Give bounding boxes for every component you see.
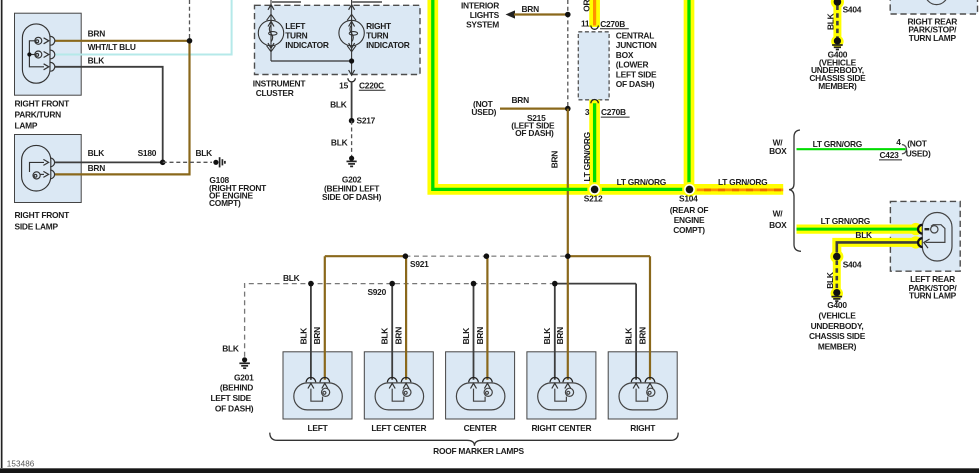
svg-text:C220C: C220C — [359, 80, 384, 90]
svg-text:LEFT CENTER: LEFT CENTER — [371, 423, 426, 433]
svg-text:S404: S404 — [843, 4, 862, 14]
wire BRN to interior lights system — [514, 13, 568, 15]
wire BRN (not used) branch — [500, 107, 568, 109]
svg-text:WHT/LT BLU: WHT/LT BLU — [88, 42, 136, 52]
svg-text:BLK: BLK — [222, 344, 239, 354]
svg-text:153486: 153486 — [7, 459, 35, 468]
svg-text:(VEHICLE: (VEHICLE — [818, 311, 856, 321]
ground G400 (top right) — [832, 37, 843, 49]
node S104 — [682, 182, 697, 197]
wire BLK riser RIGHT CENTER — [554, 284, 556, 380]
wire BRN bus dashed middle segment — [405, 255, 567, 257]
node BLK bus at RIGHT CENTER — [552, 281, 558, 287]
right turn indicator bulb — [339, 0, 364, 76]
left rear lamp bulb — [922, 213, 952, 262]
svg-text:BRN: BRN — [522, 4, 540, 14]
svg-text:LT GRN/ORG: LT GRN/ORG — [718, 177, 767, 187]
cut-off connector label above left indicator — [272, 1, 301, 3]
svg-text:RIGHT: RIGHT — [630, 423, 656, 433]
wire BRN S215 down to marker lamp bus — [567, 109, 569, 257]
svg-text:BLK: BLK — [855, 230, 872, 240]
park/turn lamp terminal cups — [50, 36, 54, 71]
svg-text:(NOT: (NOT — [907, 138, 928, 148]
wire core: lt grn/org main L path — [433, 0, 690, 189]
svg-text:COMPT): COMPT) — [673, 225, 705, 235]
wire BLK from side lamp to S180 — [55, 161, 163, 163]
svg-text:BRN: BRN — [550, 151, 560, 169]
svg-text:USED): USED) — [471, 107, 496, 117]
wire BLK from park/turn lamp down to S180 — [55, 67, 163, 163]
ground G108 — [213, 157, 225, 167]
svg-text:(REAR OF: (REAR OF — [670, 205, 709, 215]
dashed wire top to S215 — [567, 0, 569, 109]
svg-text:ORG: ORG — [581, 0, 591, 12]
node at interior lights tap — [565, 12, 571, 18]
highlighted circuit: yellow band main L path — [433, 0, 783, 189]
svg-text:RIGHT FRONT: RIGHT FRONT — [15, 210, 71, 220]
yellow halo G400 (top right) — [831, 35, 843, 47]
svg-text:W/: W/ — [773, 209, 784, 219]
svg-text:15: 15 — [339, 80, 348, 90]
cut-off connector label above right indicator — [352, 1, 382, 3]
svg-text:OF DASH): OF DASH) — [616, 79, 655, 89]
roof marker lamp bulb LEFT — [294, 383, 343, 410]
connector C220C pin 15 cup — [348, 78, 355, 82]
svg-text:S217: S217 — [357, 115, 376, 125]
svg-text:BLK: BLK — [380, 328, 390, 345]
wire BLK riser RIGHT — [635, 284, 637, 380]
svg-text:LEFT SIDE: LEFT SIDE — [616, 70, 657, 80]
svg-text:S180: S180 — [138, 148, 157, 158]
right rear park/stop/turn lamp box (cut off at top) — [890, 0, 977, 14]
node BRN junction — [187, 38, 193, 44]
dashed wire S404 to G400 (top) — [836, 6, 839, 38]
connector C270B pin 3 cup — [591, 99, 599, 103]
svg-text:UNDERBODY,: UNDERBODY, — [811, 321, 864, 331]
svg-text:OF DASH): OF DASH) — [515, 128, 554, 138]
brace splitting rear feed — [789, 130, 801, 251]
node S404 (left rear) — [833, 253, 841, 261]
yellow band: lt grn/org from CJB pin 3 to S212 — [589, 100, 600, 195]
wire core: vertical to S104 — [687, 0, 690, 189]
instrument cluster box — [255, 5, 421, 74]
arrow to interior lights system — [506, 10, 516, 18]
svg-text:SIDE OF DASH): SIDE OF DASH) — [322, 192, 382, 202]
svg-text:BRN: BRN — [555, 327, 565, 345]
yellow halo S404 (top right) — [831, 0, 844, 9]
central junction box — [578, 32, 609, 100]
svg-text:BLK: BLK — [88, 56, 105, 66]
wire core: blk return from left rear lamp — [837, 242, 918, 252]
svg-text:BRN: BRN — [88, 28, 106, 38]
roof marker lamp bulb LEFT CENTER — [375, 383, 424, 410]
svg-text:S921: S921 — [410, 259, 429, 269]
svg-text:INDICATOR: INDICATOR — [366, 40, 410, 50]
svg-text:BLK: BLK — [88, 148, 105, 158]
svg-text:S920: S920 — [367, 287, 386, 297]
node joining indicators — [349, 58, 354, 63]
roof marker lamp box RIGHT — [608, 352, 677, 419]
node S215 — [565, 106, 571, 112]
yellow band: branch to left rear lamp — [797, 224, 921, 233]
node BLK bus at CENTER — [471, 281, 477, 287]
node BLK bus at LEFT — [308, 281, 314, 287]
left rear park/stop/turn lamp box — [890, 201, 960, 271]
wire core: lt grn/org CJB pin 3 to S212 — [593, 103, 596, 191]
park/turn lamp bulb — [22, 24, 50, 83]
svg-text:BLK: BLK — [825, 13, 835, 30]
svg-text:CENTRAL: CENTRAL — [616, 30, 654, 40]
svg-text:3: 3 — [585, 107, 590, 117]
svg-text:BRN: BRN — [512, 95, 530, 105]
svg-text:INDICATOR: INDICATOR — [285, 40, 329, 50]
svg-text:BOX: BOX — [769, 220, 787, 230]
right front park/turn lamp box — [15, 13, 82, 95]
svg-text:4: 4 — [896, 137, 901, 147]
wire BLK riser LEFT — [310, 284, 312, 380]
brace roof marker lamps — [270, 433, 678, 446]
svg-text:BRN: BRN — [312, 327, 322, 345]
wire core: org into CJB pin 11 — [593, 0, 596, 26]
dashed wire S217 to G202 — [351, 121, 353, 157]
roof marker lamp bulb RIGHT — [619, 383, 668, 410]
svg-text:LT GRN/ORG: LT GRN/ORG — [617, 177, 666, 187]
node BRN bus at RIGHT CENTER (S215 feed) — [565, 253, 571, 259]
svg-text:LT GRN/ORG: LT GRN/ORG — [813, 139, 862, 149]
svg-text:LEFT SIDE: LEFT SIDE — [210, 393, 251, 403]
svg-text:BLK: BLK — [542, 328, 552, 345]
svg-text:C270B: C270B — [600, 19, 625, 29]
wire joining indicators inside cluster — [271, 60, 352, 62]
svg-text:CLUSTER: CLUSTER — [256, 88, 294, 98]
connector C270B pin 11 cup — [591, 26, 599, 30]
svg-text:(LOWER: (LOWER — [616, 60, 649, 70]
svg-text:(BEHIND: (BEHIND — [220, 382, 253, 392]
dashed stub above BRN node — [189, 0, 191, 41]
svg-text:BRN: BRN — [475, 327, 485, 345]
svg-text:LT GRN/ORG: LT GRN/ORG — [582, 132, 592, 181]
svg-text:BLK: BLK — [461, 328, 471, 345]
svg-text:RIGHT CENTER: RIGHT CENTER — [531, 423, 591, 433]
wire BLK riser CENTER — [473, 284, 475, 380]
svg-text:MEMBER): MEMBER) — [818, 81, 857, 91]
roof marker lamp box CENTER — [446, 352, 515, 419]
svg-text:BRN: BRN — [88, 163, 106, 173]
yellow band: orange feed into CJB pin 11 — [589, 0, 600, 27]
svg-text:TURN LAMP: TURN LAMP — [909, 33, 957, 43]
ground G400 (left rear) — [832, 289, 843, 301]
wire BLK bus right solid segment — [555, 283, 636, 285]
wire BRN riser RIGHT CENTER — [567, 256, 569, 380]
wire BRN riser RIGHT — [649, 256, 651, 380]
yellow halo G400 (left rear) — [831, 287, 843, 299]
wire lt grn/org to C423 (not used) — [797, 148, 906, 150]
svg-text:BLK: BLK — [825, 272, 835, 289]
svg-text:COMPT): COMPT) — [209, 198, 241, 208]
yellow halo S404 (left rear) — [830, 250, 843, 263]
svg-text:INSTRUMENT: INSTRUMENT — [253, 79, 307, 89]
svg-text:C270B: C270B — [601, 107, 626, 117]
node S404 (top right, cut) — [834, 0, 842, 6]
roof marker lamp box RIGHT CENTER — [527, 352, 596, 419]
yellow band: vertical feed to S104 — [684, 0, 695, 195]
dashed wire S404 to G400 — [835, 261, 838, 291]
yellow band: blk return from left rear lamp to S404 — [837, 242, 921, 252]
roof marker lamp box LEFT — [283, 352, 352, 419]
svg-text:SYSTEM: SYSTEM — [466, 20, 499, 30]
svg-text:BLK: BLK — [196, 148, 213, 158]
side lamp bulb — [22, 145, 51, 191]
left rear lamp terminal cups — [918, 225, 922, 234]
ground G201 — [239, 357, 250, 368]
roof marker lamp bulb CENTER — [456, 383, 505, 410]
wire BRN bus right solid segment — [568, 255, 650, 257]
svg-text:S212: S212 — [584, 194, 603, 204]
svg-text:BLK: BLK — [283, 273, 300, 283]
svg-text:CENTER: CENTER — [464, 423, 497, 433]
page left border — [1, 0, 3, 468]
page bottom bar — [0, 468, 979, 473]
left rear lamp terminal stub — [925, 228, 930, 230]
svg-text:CHASSIS SIDE: CHASSIS SIDE — [809, 331, 866, 341]
svg-text:SIDE LAMP: SIDE LAMP — [15, 222, 59, 232]
svg-text:S404: S404 — [843, 260, 862, 270]
svg-text:LAMP: LAMP — [15, 120, 38, 130]
svg-text:BLK: BLK — [330, 100, 347, 110]
svg-text:G201: G201 — [234, 372, 254, 382]
node S217 — [349, 118, 355, 124]
wire BRN vertical joining side lamp — [55, 41, 190, 175]
yellow band: S404 to G400 (top right) — [833, 0, 841, 38]
svg-text:TURN LAMP: TURN LAMP — [909, 291, 957, 301]
svg-text:BRN: BRN — [394, 327, 404, 345]
node S180 — [160, 160, 166, 166]
svg-text:C423: C423 — [880, 150, 900, 160]
roof marker lamp bulb RIGHT CENTER — [538, 383, 587, 410]
wire BRN riser LEFT CENTER — [405, 256, 407, 380]
node S920 — [389, 281, 395, 287]
svg-text:BLK: BLK — [298, 328, 308, 345]
wire BLK bus dashed segment to G201 — [245, 284, 555, 358]
wire BRN park/turn lamp to node — [55, 40, 190, 42]
node BRN bus at CENTER — [484, 253, 490, 259]
left turn indicator bulb — [258, 0, 283, 61]
svg-text:G400: G400 — [827, 300, 847, 310]
svg-text:MEMBER): MEMBER) — [818, 342, 857, 352]
connector C423 cup — [902, 145, 907, 154]
svg-text:S104: S104 — [679, 194, 698, 204]
wire BLK cluster to S217 — [351, 82, 353, 121]
right rear lamp bulb (cut) — [925, 0, 948, 5]
svg-text:LT GRN/ORG: LT GRN/ORG — [821, 216, 870, 226]
svg-text:JUNCTION: JUNCTION — [616, 40, 657, 50]
roof marker lamp box LEFT CENTER — [364, 352, 433, 419]
svg-text:USED): USED) — [906, 148, 931, 158]
svg-text:RIGHT FRONT: RIGHT FRONT — [15, 98, 71, 108]
ground G202 — [347, 156, 357, 167]
wire BRN riser CENTER — [486, 256, 488, 380]
wire BRN bus left solid segment — [325, 255, 406, 257]
wire BLK riser LEFT CENTER — [391, 284, 393, 380]
node S212 — [587, 182, 602, 197]
dashed wire S180 to G108 — [163, 161, 212, 163]
svg-text:BLK: BLK — [331, 137, 348, 147]
wire WHT/LT BLU from park/turn lamp — [55, 0, 232, 55]
svg-text:LEFT: LEFT — [308, 423, 329, 433]
svg-text:OF DASH): OF DASH) — [215, 404, 254, 414]
svg-text:11: 11 — [581, 19, 590, 29]
svg-text:BRN: BRN — [637, 327, 647, 345]
yellow band: S404 to G400 (bottom) — [833, 252, 841, 291]
right front side lamp box — [15, 135, 82, 203]
wire core: org segment S104 to rear branch brace — [690, 189, 783, 192]
wire BRN riser LEFT — [324, 256, 326, 380]
side lamp terminal cups — [50, 158, 54, 179]
svg-text:BLK: BLK — [624, 328, 634, 345]
svg-text:PARK/TURN: PARK/TURN — [15, 109, 62, 119]
svg-text:ROOF MARKER LAMPS: ROOF MARKER LAMPS — [433, 446, 524, 456]
svg-text:BOX: BOX — [769, 146, 787, 156]
node S921 — [403, 253, 409, 259]
svg-text:BOX: BOX — [616, 50, 634, 60]
svg-text:ENGINE: ENGINE — [674, 215, 705, 225]
wire core: lt grn/org to left rear lamp — [797, 228, 918, 231]
